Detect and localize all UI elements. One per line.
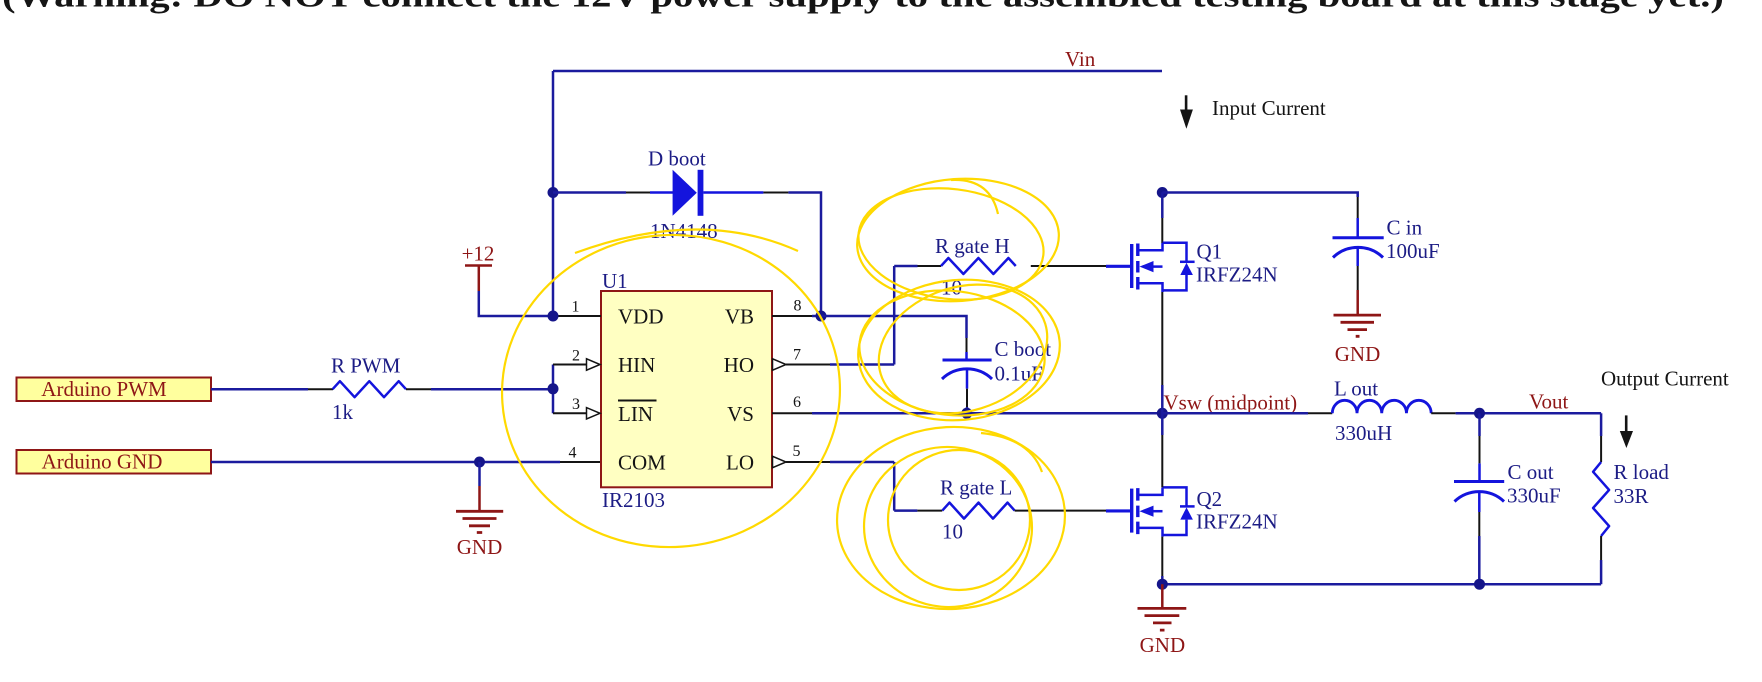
- node Vin junction: [1157, 187, 1168, 198]
- wire diode row left: [553, 191, 626, 194]
- svg-text:LO: LO: [726, 451, 754, 475]
- svg-text:R gate H: R gate H: [935, 234, 1010, 258]
- svg-text:IRFZ24N: IRFZ24N: [1196, 510, 1278, 534]
- node bottom left junction: [1157, 579, 1168, 590]
- pin 5 arrow and lead: [773, 456, 787, 467]
- svg-text:Output Current: Output Current: [1601, 367, 1729, 391]
- svg-text:1: 1: [572, 299, 580, 316]
- svg-text:330uF: 330uF: [1507, 484, 1561, 508]
- svg-text:L out: L out: [1334, 377, 1378, 401]
- svg-text:Input Current: Input Current: [1212, 96, 1326, 120]
- svg-text:IR2103: IR2103: [602, 488, 665, 512]
- pin 6 lead: [772, 412, 812, 414]
- wire Vout corner down to R load: [1600, 413, 1603, 436]
- svg-text:IRFZ24N: IRFZ24N: [1196, 263, 1278, 287]
- svg-text:GND: GND: [1140, 633, 1186, 657]
- node C out junction top: [1474, 408, 1485, 419]
- capacitor C boot: [942, 337, 1051, 389]
- resistor R PWM: [333, 381, 406, 397]
- svg-text:Arduino GND: Arduino GND: [42, 450, 163, 474]
- wire Q1 source to Vsw: [1161, 292, 1163, 385]
- node C boot / VS junction: [961, 408, 972, 419]
- wire LO bracket down to R gate L: [830, 462, 917, 511]
- ground GND under C in: [1334, 290, 1382, 366]
- capacitor C in: [1333, 216, 1440, 267]
- node HIN/LIN junction: [548, 383, 559, 394]
- svg-text:33R: 33R: [1614, 484, 1649, 508]
- svg-text:4: 4: [569, 445, 577, 462]
- resistor R gate H: [941, 258, 1016, 274]
- op-amp U1 IR2103 chip body: [601, 269, 772, 512]
- pin 8 lead: [772, 315, 812, 317]
- arrow input current: [1185, 95, 1188, 112]
- resistor R gate L: [942, 503, 1014, 519]
- pin 1 lead: [556, 315, 601, 317]
- svg-text:Vout: Vout: [1529, 390, 1568, 414]
- svg-text:VB: VB: [725, 305, 754, 329]
- svg-text:Vin: Vin: [1065, 47, 1096, 71]
- svg-text:C out: C out: [1508, 460, 1554, 484]
- pin 2 arrow: [587, 359, 601, 370]
- wire +12 to VDD node: [479, 291, 553, 316]
- diode D boot: [673, 170, 697, 216]
- svg-text:3: 3: [572, 396, 580, 413]
- wire HO bracket up to R gate H: [830, 266, 918, 365]
- port Arduino GND: [17, 450, 212, 474]
- inductor L out: [1332, 377, 1431, 446]
- svg-text:R gate L: R gate L: [940, 476, 1012, 500]
- svg-text:1k: 1k: [332, 400, 354, 424]
- svg-text:10: 10: [942, 520, 963, 544]
- annotation yellow circles around R gate L: [832, 421, 1069, 615]
- svg-text:Arduino PWM: Arduino PWM: [41, 377, 167, 401]
- svg-text:8: 8: [794, 298, 802, 315]
- wire Vin top horizontal: [553, 70, 1162, 73]
- svg-text:LIN: LIN: [618, 402, 653, 426]
- svg-text:C in: C in: [1387, 216, 1423, 240]
- wire VS to Vsw midpoint: [812, 412, 1162, 415]
- wire diode row right + drop to pin 8: [788, 193, 821, 317]
- svg-text:HIN: HIN: [618, 353, 655, 377]
- capacitor C out: [1454, 460, 1561, 512]
- svg-text:5: 5: [793, 443, 801, 460]
- node VB junction: [812, 315, 821, 318]
- wire Arduino PWM to R PWM: [211, 388, 308, 391]
- annotation yellow circles around R gate H: [852, 172, 1063, 310]
- node bottom C out junction: [1474, 579, 1485, 590]
- transistor Q1 IRFZ24N: [1106, 240, 1278, 293]
- wire Arduino GND to COM: [211, 461, 560, 464]
- node VDD junction: [548, 311, 559, 322]
- svg-text:R PWM: R PWM: [331, 354, 401, 378]
- wire Vin down to Q1 drain: [1161, 193, 1164, 219]
- power +12: [462, 242, 495, 292]
- svg-text:6: 6: [793, 394, 801, 411]
- svg-text:GND: GND: [457, 535, 503, 559]
- svg-text:(Warning: DO NOT connect the 1: (Warning: DO NOT connect the 12V power s…: [2, 0, 1724, 15]
- svg-text:Q1: Q1: [1197, 240, 1223, 264]
- pin 3 arrow: [587, 408, 601, 419]
- pin 7 arrow and lead: [773, 359, 787, 370]
- svg-text:Q2: Q2: [1197, 487, 1223, 511]
- wire VB to C boot: [821, 316, 967, 338]
- wire Vin to C in: [1162, 193, 1357, 198]
- svg-text:100uF: 100uF: [1386, 239, 1440, 263]
- wire Vsw down to Q2 drain: [1161, 413, 1164, 435]
- transistor Q2 IRFZ24N: [1106, 487, 1278, 537]
- svg-text:VS: VS: [727, 402, 754, 426]
- svg-text:7: 7: [793, 347, 801, 364]
- wire HIN/LIN bracket: [552, 365, 555, 414]
- wire down to C out: [1478, 413, 1481, 436]
- ground GND bottom: [1138, 584, 1187, 657]
- node Vsw junction: [1157, 408, 1168, 419]
- svg-text:2: 2: [572, 348, 580, 365]
- svg-text:0.1uF: 0.1uF: [995, 362, 1043, 386]
- svg-text:VDD: VDD: [618, 305, 664, 329]
- svg-text:R load: R load: [1614, 460, 1670, 484]
- svg-text:Vsw (midpoint): Vsw (midpoint): [1164, 390, 1298, 414]
- wire R PWM to HIN/LIN node: [431, 388, 553, 391]
- svg-text:+12: +12: [462, 242, 495, 266]
- resistor R load vertical: [1593, 460, 1669, 536]
- svg-text:U1: U1: [602, 269, 628, 293]
- wire L out to Vout corner: [1456, 412, 1602, 415]
- node GND junction: [474, 457, 485, 468]
- svg-text:GND: GND: [1335, 342, 1381, 366]
- annotation yellow circle around U1: [492, 224, 851, 559]
- svg-text:D boot: D boot: [648, 147, 706, 171]
- wire Q2 source down: [1161, 537, 1163, 576]
- annotation yellow circles around C boot: [852, 265, 1066, 434]
- wire Vsw to L out: [1162, 412, 1308, 415]
- wire left vertical VDD rail: [552, 71, 555, 316]
- svg-text:330uH: 330uH: [1335, 421, 1392, 445]
- port Arduino PWM: [17, 377, 212, 401]
- node diode row junction: [548, 187, 559, 198]
- svg-text:HO: HO: [724, 353, 754, 377]
- svg-text:COM: COM: [618, 451, 666, 475]
- ground GND left: [456, 462, 503, 559]
- wire bottom rail: [1162, 583, 1601, 586]
